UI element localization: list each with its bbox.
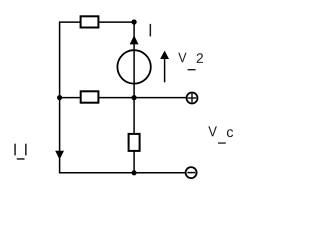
wire middle horizontal bbox=[59, 97, 187, 99]
wire left vertical bbox=[59, 22, 61, 173]
wire resistor branch vertical bbox=[133, 98, 135, 173]
current source U1 circle bbox=[117, 50, 150, 83]
resistor R2 middle bbox=[81, 91, 99, 102]
current source arrowhead bbox=[130, 35, 139, 44]
label I_l bbox=[14, 144, 26, 160]
terminal minus bbox=[186, 167, 197, 178]
wire top horizontal bbox=[59, 21, 134, 23]
node A top junction bbox=[132, 19, 137, 24]
node C middle junction bbox=[132, 95, 137, 100]
node B left middle junction bbox=[57, 95, 62, 100]
resistor R1 top bbox=[81, 16, 99, 27]
terminal plus bbox=[187, 93, 198, 104]
arrow V_2 polarity bbox=[160, 51, 169, 83]
label V_c bbox=[208, 126, 233, 143]
wire source branch vertical bbox=[133, 22, 135, 98]
label I bbox=[150, 24, 152, 37]
node D bottom junction bbox=[132, 170, 137, 175]
wire bottom horizontal bbox=[59, 172, 186, 174]
label V_2 bbox=[178, 53, 203, 71]
arrow I_l current direction bbox=[55, 151, 64, 160]
resistor R3 vertical bbox=[129, 134, 140, 151]
